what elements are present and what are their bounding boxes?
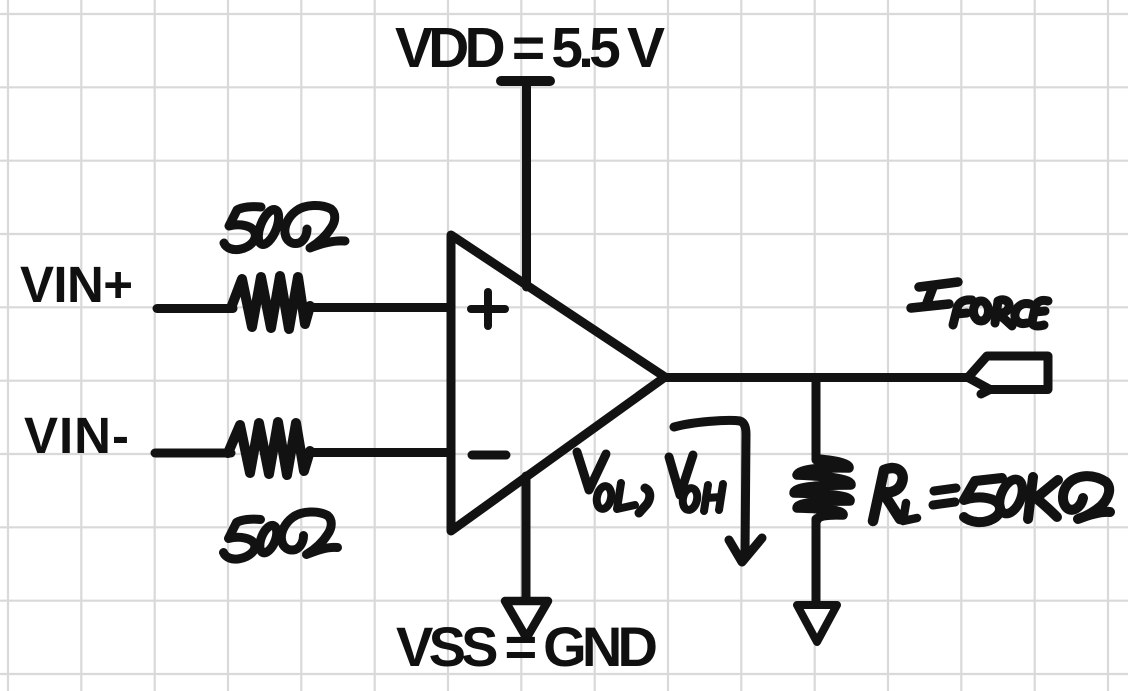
op-amp + input pin marker [471, 292, 505, 326]
svg-text:VDD = 5.5 V: VDD = 5.5 V [395, 16, 665, 80]
ground symbol VSS [505, 601, 548, 638]
wire VSS from op-amp [522, 476, 531, 603]
wire VIN- to resistor [155, 449, 231, 458]
VDD rail bar [501, 76, 550, 86]
resistor R1 50ohm [231, 276, 310, 329]
op-amp U1 [451, 235, 665, 531]
handwritten label IFORCE [911, 282, 958, 308]
wire resistor to op-amp - [309, 448, 450, 457]
handwritten label 50ohm (R1) [224, 205, 345, 249]
svg-text:VIN-: VIN- [24, 407, 129, 464]
handwritten label RL = 50Kohm [873, 468, 1110, 522]
wire VDD to op-amp [522, 82, 531, 287]
handwritten label VOL,VOH [577, 452, 723, 513]
svg-text:VSS = GND: VSS = GND [396, 615, 658, 678]
resistor RL [794, 459, 851, 520]
svg-text:VIN+: VIN+ [20, 256, 133, 313]
wire RL to ground [812, 519, 821, 606]
wire VIN+ to resistor [157, 304, 233, 313]
wire op-amp output [665, 373, 969, 382]
IFORCE probe flag [968, 356, 1048, 394]
resistor R2 50ohm [228, 422, 310, 475]
op-amp - input pin marker [472, 451, 506, 460]
wire resistor to op-amp + [310, 303, 450, 312]
handwritten label 50ohm (R2) [224, 512, 338, 559]
ground symbol RL [797, 605, 837, 642]
wire load branch [812, 378, 821, 461]
arrow VOL VOH [674, 420, 746, 556]
